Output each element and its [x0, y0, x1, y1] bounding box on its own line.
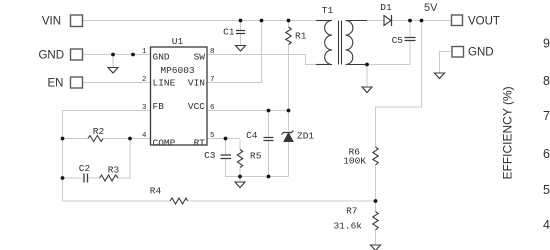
- svg-text:R4: R4: [150, 186, 162, 197]
- svg-text:4: 4: [142, 132, 147, 140]
- svg-text:MP6003: MP6003: [160, 65, 195, 76]
- svg-text:EFFICIENCY (%): EFFICIENCY (%): [501, 86, 515, 179]
- svg-text:D1: D1: [380, 2, 392, 13]
- svg-text:VIN: VIN: [42, 16, 61, 28]
- svg-text:7: 7: [210, 76, 215, 84]
- svg-text:5: 5: [210, 132, 215, 140]
- svg-text:C3: C3: [204, 150, 216, 161]
- svg-text:5V: 5V: [424, 2, 438, 14]
- svg-text:60: 60: [543, 147, 550, 161]
- svg-text:2: 2: [142, 76, 147, 84]
- svg-text:VOUT: VOUT: [468, 16, 500, 28]
- svg-text:ZD1: ZD1: [297, 131, 314, 142]
- svg-text:SW: SW: [194, 52, 206, 63]
- svg-text:FB: FB: [153, 101, 165, 112]
- svg-text:40: 40: [543, 218, 550, 232]
- svg-text:90: 90: [543, 37, 550, 51]
- svg-text:R7: R7: [346, 206, 357, 217]
- svg-text:C5: C5: [392, 35, 404, 46]
- svg-text:C2: C2: [79, 163, 91, 174]
- svg-text:GND: GND: [153, 52, 170, 63]
- svg-text:R1: R1: [295, 31, 307, 42]
- svg-text:R5: R5: [250, 151, 262, 162]
- svg-text:EN: EN: [48, 78, 64, 90]
- svg-text:COMP: COMP: [153, 137, 176, 148]
- svg-text:8: 8: [210, 48, 215, 56]
- svg-text:80: 80: [543, 74, 550, 88]
- svg-text:70: 70: [543, 109, 550, 123]
- svg-text:VIN: VIN: [188, 78, 205, 89]
- svg-text:C1: C1: [223, 27, 235, 38]
- svg-text:U1: U1: [172, 36, 184, 47]
- svg-text:R3: R3: [108, 165, 120, 176]
- svg-text:3: 3: [142, 104, 147, 112]
- svg-text:6: 6: [210, 104, 215, 112]
- svg-text:LINE: LINE: [153, 78, 176, 89]
- svg-text:GND: GND: [468, 47, 494, 59]
- svg-text:1: 1: [142, 48, 147, 56]
- svg-text:RT: RT: [194, 137, 206, 148]
- svg-text:31.6k: 31.6k: [333, 221, 362, 232]
- svg-text:R2: R2: [93, 126, 105, 137]
- svg-text:T1: T1: [322, 5, 334, 16]
- svg-text:C4: C4: [246, 130, 258, 141]
- svg-text:100K: 100K: [343, 156, 366, 167]
- svg-text:50: 50: [543, 183, 550, 197]
- svg-text:GND: GND: [38, 50, 64, 62]
- svg-text:VCC: VCC: [188, 101, 205, 112]
